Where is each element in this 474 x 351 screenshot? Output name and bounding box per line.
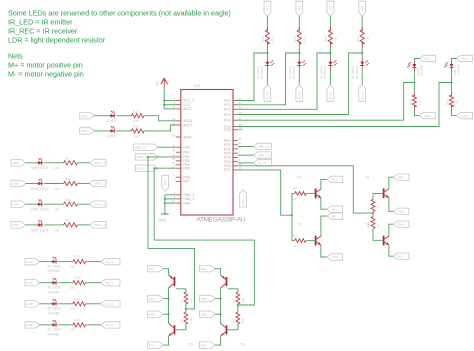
wire bbox=[329, 71, 331, 85]
wire PC3 to col 4 bbox=[238, 53, 362, 115]
svg-text:PB5: PB5 bbox=[183, 167, 189, 171]
svg-text:SFH482: SFH482 bbox=[48, 311, 60, 315]
wire bbox=[372, 212, 374, 217]
wire PC5 to emitter col 2 bbox=[238, 83, 452, 127]
svg-text:100: 100 bbox=[133, 134, 138, 138]
svg-text:SFH482: SFH482 bbox=[48, 333, 60, 337]
svg-text:SFH482: SFH482 bbox=[48, 290, 60, 294]
net label SMD_L1 bbox=[90, 160, 107, 166]
wire bbox=[94, 115, 110, 117]
svg-text:T3: T3 bbox=[365, 175, 369, 179]
wire bbox=[215, 298, 221, 300]
net label GND t3 bbox=[393, 208, 409, 214]
net label VCC t1 bbox=[327, 176, 343, 182]
net label IR_L6 bbox=[254, 143, 272, 149]
svg-text:IR_LED = IR emitter: IR_LED = IR emitter bbox=[8, 18, 73, 27]
led IR_LED3 bbox=[51, 299, 58, 306]
svg-text:IR_LED2: IR_LED2 bbox=[48, 286, 62, 290]
svg-text:20: 20 bbox=[172, 133, 176, 137]
net label GND smd row 2 bbox=[11, 180, 26, 186]
svg-text:IR_L4: IR_L4 bbox=[106, 323, 114, 327]
svg-text:R5: R5 bbox=[293, 234, 297, 238]
wire riser PB5 to driver pair B bbox=[154, 168, 254, 305]
svg-text:SMD_L6: SMD_L6 bbox=[258, 153, 270, 157]
svg-text:R10: R10 bbox=[65, 177, 71, 181]
svg-text:AREF: AREF bbox=[183, 135, 192, 139]
svg-text:SMD_L4: SMD_L4 bbox=[94, 223, 106, 227]
svg-text:IR_R3: IR_R3 bbox=[329, 91, 333, 100]
wire bbox=[59, 261, 73, 263]
wire bbox=[86, 282, 101, 284]
wire bbox=[44, 162, 63, 164]
svg-text:100: 100 bbox=[70, 286, 75, 290]
wire bbox=[78, 183, 90, 185]
transistor T1 bbox=[297, 175, 321, 198]
svg-text:GND: GND bbox=[159, 219, 167, 223]
svg-text:R7: R7 bbox=[367, 206, 371, 210]
wire bbox=[298, 71, 300, 85]
svg-text:VCC: VCC bbox=[201, 297, 207, 301]
junction col 1 bbox=[266, 52, 268, 54]
wire T3 emitter to GND bbox=[389, 198, 394, 212]
net label SMD_L5 bbox=[133, 144, 158, 150]
svg-text:IR_LED3: IR_LED3 bbox=[48, 307, 62, 311]
svg-text:R1: R1 bbox=[180, 299, 184, 303]
net label IR_R3 bbox=[327, 85, 334, 102]
net label VCC col 4 bbox=[359, 1, 366, 16]
wire bbox=[329, 47, 331, 59]
svg-text:SMD_L5: SMD_L5 bbox=[135, 145, 147, 149]
junction T1/T2 base chain bbox=[291, 214, 293, 216]
wire bbox=[40, 282, 53, 284]
led SMD_LED1 bbox=[37, 158, 44, 165]
svg-text:SMD_LED4: SMD_LED4 bbox=[31, 228, 49, 232]
svg-text:13: 13 bbox=[172, 149, 176, 153]
wire bbox=[238, 162, 254, 164]
wire bbox=[185, 304, 187, 312]
svg-text:1k: 1k bbox=[293, 244, 297, 248]
junction VCC_2 bbox=[163, 99, 165, 101]
wire to PB2 bbox=[148, 156, 176, 158]
transistor T2 bbox=[297, 223, 321, 246]
led SMD_LED2 bbox=[37, 179, 44, 186]
resistor R8 bbox=[367, 217, 380, 229]
svg-text:GND: GND bbox=[26, 302, 32, 306]
svg-text:PC6: PC6 bbox=[224, 128, 231, 132]
svg-text:SFH5110: SFH5110 bbox=[260, 66, 264, 79]
svg-text:SMD_LED3: SMD_LED3 bbox=[31, 208, 49, 212]
net label SMD_L3 bbox=[90, 201, 107, 207]
junction emitter col 2 bbox=[451, 82, 453, 84]
wire bbox=[163, 336, 169, 345]
wire T1 emitter to M1+ bbox=[321, 198, 327, 210]
ground symbol GND bbox=[159, 214, 169, 223]
svg-text:GND: GND bbox=[424, 114, 430, 118]
wire bbox=[94, 130, 110, 132]
wire bbox=[266, 16, 268, 30]
svg-text:1k: 1k bbox=[376, 206, 380, 210]
svg-text:PC2: PC2 bbox=[224, 108, 231, 112]
net label VCC bbox=[200, 295, 216, 301]
svg-text:PC1: PC1 bbox=[224, 103, 231, 107]
wire T3 collector to M2+ bbox=[389, 177, 394, 189]
resistor R23 bbox=[408, 92, 421, 110]
svg-text:IR_R1: IR_R1 bbox=[266, 91, 270, 100]
wire bbox=[163, 313, 169, 315]
wire bbox=[117, 115, 132, 117]
net label VCC bbox=[148, 295, 164, 301]
led SMD_LED4 bbox=[37, 220, 44, 227]
wire to pin AVCC bbox=[164, 108, 176, 110]
wire bbox=[86, 303, 101, 305]
transistor T5 bbox=[169, 275, 175, 288]
wire T2 collector to M1- bbox=[321, 216, 327, 236]
svg-text:M4-: M4- bbox=[201, 343, 206, 347]
svg-text:100: 100 bbox=[54, 166, 59, 170]
wire base link top bbox=[176, 289, 186, 292]
svg-text:100: 100 bbox=[70, 264, 75, 268]
net label VCC col 1 bbox=[264, 1, 271, 16]
svg-text:R19: R19 bbox=[261, 36, 265, 42]
net label M2- bbox=[393, 253, 409, 259]
wire to pin GND bbox=[165, 202, 176, 204]
svg-text:SFH482: SFH482 bbox=[420, 64, 424, 76]
junction emitter col 1 bbox=[413, 82, 415, 84]
net label GND emitter col 2 top bbox=[457, 55, 473, 61]
wire T2 emitter to GND bbox=[321, 245, 327, 257]
wire base link bottom bbox=[228, 324, 238, 330]
svg-text:R11: R11 bbox=[65, 198, 71, 202]
svg-text:SMD_L1: SMD_L1 bbox=[94, 161, 106, 165]
wire bbox=[163, 269, 169, 275]
wire bbox=[26, 224, 38, 226]
ic U1 pin stubs bbox=[176, 100, 238, 203]
wire bbox=[44, 224, 63, 226]
wire bbox=[413, 72, 415, 92]
svg-text:LDR1: LDR1 bbox=[107, 119, 116, 123]
wire base link top bbox=[228, 289, 238, 292]
svg-text:SFH5110: SFH5110 bbox=[292, 66, 296, 79]
svg-text:M1+: M1+ bbox=[332, 207, 338, 211]
net label GND bbox=[148, 311, 164, 317]
transistor T6 bbox=[169, 323, 175, 336]
wire to pin VCC_2 bbox=[164, 99, 176, 101]
wire PC1 to col 2 bbox=[238, 53, 299, 105]
net label GND ldr row 2 bbox=[80, 128, 95, 134]
svg-text:R14: R14 bbox=[74, 276, 80, 280]
resistor R12 bbox=[54, 219, 78, 233]
svg-text:GND: GND bbox=[13, 223, 19, 227]
junction col 4 bbox=[361, 52, 363, 54]
svg-text:GND: GND bbox=[398, 210, 404, 214]
wire bbox=[414, 110, 419, 115]
resistor R9 bbox=[54, 156, 78, 170]
resistor R3 bbox=[232, 292, 245, 304]
wire bbox=[238, 154, 254, 156]
net label M4- bbox=[200, 342, 216, 348]
wire bbox=[329, 16, 331, 30]
wire VCC vertical bbox=[163, 87, 165, 109]
label T8 bbox=[241, 343, 245, 347]
net label IR_R4 bbox=[359, 85, 366, 102]
svg-text:GND: GND bbox=[183, 201, 191, 205]
net label M3- bbox=[148, 342, 164, 348]
wire bbox=[414, 59, 419, 62]
wire to pin GND_2 bbox=[165, 194, 176, 196]
wire bbox=[86, 324, 101, 326]
svg-text:10k: 10k bbox=[189, 298, 193, 303]
ldr LDR2 bbox=[109, 126, 116, 133]
svg-text:R15: R15 bbox=[74, 297, 80, 301]
ic U1 ATMEGA328P-AU bbox=[181, 83, 246, 224]
transistor T3 bbox=[365, 175, 389, 198]
net label GND emitter col 2 bottom bbox=[457, 112, 473, 118]
wire bbox=[298, 47, 300, 59]
wire bbox=[78, 203, 90, 205]
net label GND ir row 2 bbox=[25, 280, 40, 286]
svg-text:ADC7: ADC7 bbox=[183, 123, 192, 127]
led IR_LED1 bbox=[51, 257, 58, 264]
junction T3/T4 base chain bbox=[372, 212, 374, 214]
transistor T7 bbox=[221, 275, 227, 288]
net label GND smd row 1 bbox=[11, 160, 26, 166]
junction PB2 riser bbox=[147, 156, 149, 158]
svg-text:M1-: M1- bbox=[332, 214, 337, 218]
svg-text:SMD_L6: SMD_L6 bbox=[137, 155, 149, 159]
svg-text:SMD_L2: SMD_L2 bbox=[94, 182, 106, 186]
net label IR_L7 bbox=[254, 152, 272, 158]
wire bbox=[238, 146, 254, 148]
svg-text:M2-: M2- bbox=[398, 254, 403, 258]
resistor R14 bbox=[70, 276, 86, 290]
svg-text:M+ = motor positive pin: M+ = motor positive pin bbox=[8, 61, 83, 70]
svg-text:SMD_LED1: SMD_LED1 bbox=[31, 166, 49, 170]
junction col 2 bbox=[298, 52, 300, 54]
ir receiver IR_REC1 bbox=[256, 58, 274, 79]
svg-text:10k: 10k bbox=[271, 37, 275, 42]
wire bbox=[215, 313, 221, 315]
svg-text:T1: T1 bbox=[297, 175, 301, 179]
wire bbox=[361, 16, 363, 30]
wire base link bottom bbox=[176, 324, 186, 330]
resistor R6 bbox=[293, 186, 306, 200]
junction bbox=[168, 313, 170, 315]
net label GND ir row 1 bbox=[25, 258, 40, 264]
svg-text:10k: 10k bbox=[189, 318, 193, 323]
svg-text:GND: GND bbox=[26, 323, 32, 327]
led LED5 bbox=[407, 62, 423, 77]
svg-text:GND: GND bbox=[26, 281, 32, 285]
svg-text:LDR = light dependent resistor: LDR = light dependent resistor bbox=[8, 36, 106, 45]
svg-text:IR_L5: IR_L5 bbox=[258, 161, 266, 165]
svg-text:PB7: PB7 bbox=[183, 180, 189, 184]
svg-text:IR_L3: IR_L3 bbox=[106, 302, 114, 306]
transistor T4 bbox=[365, 223, 389, 246]
svg-text:100: 100 bbox=[54, 228, 59, 232]
svg-text:VCC: VCC bbox=[329, 5, 333, 11]
svg-text:100: 100 bbox=[54, 208, 59, 212]
svg-text:PC4: PC4 bbox=[224, 119, 231, 123]
wire to ADC7 bbox=[144, 125, 176, 131]
svg-text:IR_L2: IR_L2 bbox=[106, 281, 114, 285]
svg-text:IR_R4: IR_R4 bbox=[360, 91, 364, 100]
svg-text:R24: R24 bbox=[445, 99, 449, 105]
svg-text:PB0: PB0 bbox=[183, 146, 189, 150]
ldr LDR1 bbox=[109, 111, 116, 118]
wire to pin VCC bbox=[164, 104, 176, 106]
label T6 bbox=[189, 343, 193, 347]
svg-text:10k: 10k bbox=[241, 298, 245, 303]
svg-text:GND: GND bbox=[332, 255, 338, 259]
svg-text:T2: T2 bbox=[297, 223, 301, 227]
net label M2+ bbox=[393, 174, 409, 180]
svg-text:IR_L1: IR_L1 bbox=[106, 260, 114, 264]
svg-text:M4+: M4+ bbox=[201, 267, 207, 271]
wire R8 to T4 base bbox=[373, 229, 383, 241]
wire bbox=[59, 282, 73, 284]
svg-text:R13: R13 bbox=[74, 255, 80, 259]
net label M3+ bbox=[148, 266, 164, 272]
svg-text:GND: GND bbox=[398, 222, 404, 226]
label IR_LED1 bbox=[48, 264, 62, 273]
wire PD7 to T1/T2 bbox=[238, 170, 292, 215]
svg-text:GND: GND bbox=[26, 260, 32, 264]
svg-text:SMD_L3: SMD_L3 bbox=[94, 202, 106, 206]
svg-text:VCC: VCC bbox=[266, 5, 270, 11]
resistor R15 bbox=[70, 297, 86, 311]
net label SMD_L6 bbox=[135, 154, 158, 160]
supply VCC arrow bbox=[156, 78, 168, 87]
svg-text:M3+: M3+ bbox=[149, 267, 155, 271]
svg-text:100: 100 bbox=[133, 119, 138, 123]
svg-text:M3-: M3- bbox=[149, 343, 154, 347]
svg-text:U1: U1 bbox=[194, 83, 200, 89]
net label M1- bbox=[327, 213, 343, 219]
net label GND t2 bbox=[327, 254, 343, 260]
wire T4 emitter to M2- bbox=[389, 245, 394, 256]
svg-text:R21: R21 bbox=[324, 36, 328, 42]
label LDR1 bbox=[107, 119, 116, 123]
svg-text:VCC: VCC bbox=[360, 5, 364, 11]
wire T1 collector to VCC bbox=[321, 179, 327, 189]
svg-text:PB1: PB1 bbox=[183, 151, 189, 155]
svg-text:IR_R2: IR_R2 bbox=[298, 91, 302, 100]
wire bbox=[78, 162, 90, 164]
svg-text:GND: GND bbox=[81, 114, 87, 118]
svg-text:R4: R4 bbox=[232, 319, 236, 323]
wire bbox=[306, 192, 315, 194]
net label SMD_L4 bbox=[90, 222, 107, 228]
svg-text:SFH482: SFH482 bbox=[457, 64, 461, 76]
ir receiver IR_REC4 bbox=[351, 58, 369, 79]
net label GND smd row 3 bbox=[11, 201, 26, 207]
resistor R16 bbox=[70, 318, 86, 332]
resistor R10 bbox=[54, 177, 78, 191]
wire bbox=[40, 324, 53, 326]
svg-text:Some LEDs are renamed to other: Some LEDs are renamed to other component… bbox=[8, 9, 231, 18]
wire bbox=[40, 303, 53, 305]
net label GND ldr row 1 bbox=[80, 113, 95, 119]
svg-text:VCC: VCC bbox=[298, 5, 302, 11]
net label GND bbox=[200, 311, 216, 317]
ir receiver IR_REC3 bbox=[319, 58, 337, 79]
svg-text:R2: R2 bbox=[180, 319, 184, 323]
label SMD_LED4 bbox=[31, 228, 49, 232]
label SMD_LED2 bbox=[31, 187, 49, 191]
wire to ADC6 bbox=[144, 116, 176, 121]
note text block bbox=[8, 9, 231, 79]
net label VCC col 2 bbox=[296, 1, 303, 16]
junction GND bbox=[164, 202, 166, 204]
svg-text:GND: GND bbox=[13, 202, 19, 206]
net label IR_L2 bbox=[101, 280, 120, 286]
net label GND emitter col 1 bottom bbox=[419, 112, 435, 118]
junction bbox=[168, 298, 170, 300]
svg-text:GND: GND bbox=[201, 312, 207, 316]
net label M1+ bbox=[327, 206, 343, 212]
svg-text:100: 100 bbox=[70, 307, 75, 311]
svg-text:ATMEGA328P-AU: ATMEGA328P-AU bbox=[197, 217, 246, 224]
junction col 3 bbox=[329, 52, 331, 54]
net label IR_L3 bbox=[101, 301, 120, 307]
net label SMD_L2 bbox=[90, 180, 107, 186]
svg-text:SFH5110: SFH5110 bbox=[355, 66, 359, 79]
svg-text:SFH482: SFH482 bbox=[48, 269, 60, 273]
net label IR_L8 bbox=[254, 160, 272, 166]
net label IR_R2 bbox=[296, 85, 303, 102]
svg-text:PD7: PD7 bbox=[224, 168, 231, 172]
svg-text:GND: GND bbox=[461, 57, 467, 61]
svg-text:SMD_LED2: SMD_LED2 bbox=[31, 187, 49, 191]
svg-text:R22: R22 bbox=[356, 36, 360, 42]
resistor R19 bbox=[261, 27, 274, 48]
resistor R13 bbox=[70, 255, 86, 269]
junction VCC bbox=[163, 104, 165, 106]
svg-text:R9: R9 bbox=[65, 156, 69, 160]
svg-text:R12: R12 bbox=[65, 219, 71, 223]
wire bbox=[78, 224, 90, 226]
svg-text:100: 100 bbox=[54, 187, 59, 191]
net label GND smd row 4 bbox=[11, 222, 26, 228]
svg-text:M- = motor negative pin: M- = motor negative pin bbox=[8, 70, 84, 79]
svg-text:T6: T6 bbox=[189, 343, 193, 347]
label SMD_LED1 bbox=[31, 166, 49, 170]
wire GND vertical bbox=[164, 195, 166, 214]
svg-text:GND: GND bbox=[424, 57, 430, 61]
resistor R24 bbox=[445, 92, 458, 110]
junction PB5 riser bbox=[153, 167, 155, 169]
svg-text:M2+: M2+ bbox=[398, 175, 404, 179]
svg-text:100: 100 bbox=[70, 328, 75, 332]
svg-text:VCC: VCC bbox=[332, 178, 338, 182]
led LED6 bbox=[444, 62, 460, 77]
svg-text:LDR2: LDR2 bbox=[107, 134, 116, 138]
svg-text:GND: GND bbox=[81, 129, 87, 133]
wire bbox=[26, 162, 38, 164]
wire PC6 stub extension bbox=[238, 129, 243, 131]
resistor R1 bbox=[180, 292, 193, 304]
wire bbox=[266, 47, 268, 59]
resistor R18 bbox=[132, 125, 145, 139]
svg-text:VCC: VCC bbox=[149, 297, 155, 301]
resistor R2 bbox=[180, 312, 193, 324]
label IR_LED4 bbox=[48, 328, 62, 337]
resistor R21 bbox=[324, 27, 337, 48]
wire bbox=[361, 47, 363, 59]
svg-text:R18: R18 bbox=[133, 125, 139, 129]
wire bbox=[306, 240, 315, 242]
wire bbox=[26, 183, 38, 185]
